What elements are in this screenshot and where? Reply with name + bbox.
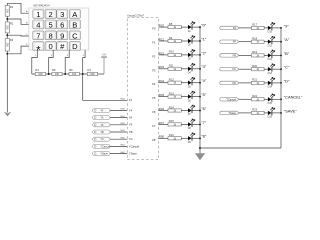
LED D15: [268, 94, 275, 105]
wire tag FB to R19: [239, 54, 251, 56]
svg-text:F3: F3: [152, 68, 156, 72]
svg-text:8: 8: [49, 31, 53, 40]
wire from R1 top to keypad row 1: [7, 3, 29, 13]
wire ladder bus: [32, 73, 104, 75]
svg-text:Y9: Y9: [129, 123, 133, 127]
wire tag TCancel to R22: [239, 98, 251, 100]
svg-text:"SAVE": "SAVE": [284, 108, 297, 113]
wire R2 to node C: [6, 33, 8, 39]
LED D1: [188, 22, 195, 33]
wire tag Y9 to port: [110, 124, 127, 126]
wire D6 to bus: [192, 96, 200, 98]
svg-text:R5: R5: [52, 68, 56, 72]
key 7: [33, 31, 44, 41]
key *: [33, 42, 44, 57]
svg-text:"CANCEL": "CANCEL": [284, 95, 303, 100]
svg-text:1: 1: [36, 10, 40, 19]
resistor R23 1k (horizontal): [251, 108, 264, 115]
svg-text:"1": "1": [201, 36, 207, 41]
LED D11: [268, 36, 275, 47]
resistor R20 1k (horizontal): [251, 64, 264, 71]
junction left bus / tie wire: [199, 147, 201, 149]
wire keypad column pin 4: [83, 50, 85, 74]
resistor R21 1k (horizontal): [251, 78, 264, 85]
sub-circuit module KeypadCCTBrd (dashed boundary): [127, 17, 158, 159]
svg-text:0: 0: [49, 42, 53, 51]
junction on left bus row 4: [199, 82, 201, 84]
svg-text:F2: F2: [152, 54, 156, 58]
LED D8: [188, 119, 195, 130]
wire tag Y4 to port: [110, 109, 127, 111]
junction ladder node 2: [48, 73, 50, 75]
wire port F7 to R15: [159, 123, 169, 125]
key 0: [45, 42, 56, 52]
wire R8 to D1: [181, 26, 188, 28]
net tag FC: [220, 67, 239, 71]
LED D5: [188, 77, 195, 88]
resistor R19 1k (horizontal): [251, 50, 264, 57]
svg-text:R3: R3: [10, 38, 14, 42]
svg-text:C: C: [72, 31, 78, 40]
wire port F0 to R8: [159, 26, 169, 28]
LED D13: [268, 64, 275, 75]
svg-text:YC: YC: [100, 137, 104, 141]
junction on left bus row 8: [199, 137, 201, 139]
svg-text:R1: R1: [10, 5, 14, 9]
svg-text:10K: 10K: [90, 73, 95, 76]
wire tag YC to port: [110, 138, 127, 140]
resistor R3 10K (vertical): [5, 38, 14, 51]
svg-text:R2: R2: [10, 21, 14, 25]
wire D15 to right bus: [272, 98, 281, 100]
key 4: [33, 20, 44, 30]
svg-text:D16: D16: [268, 116, 273, 119]
svg-text:KEYPAD4X4: KEYPAD4X4: [33, 4, 50, 8]
svg-text:7: 7: [36, 31, 40, 40]
junction on left bus row 7: [199, 123, 201, 125]
svg-text:3: 3: [60, 10, 64, 19]
wire tag TSave to R23: [239, 112, 251, 114]
terminal tag Y4: [93, 108, 110, 112]
wire D16 to right bus: [272, 112, 281, 114]
svg-text:+5V: +5V: [102, 53, 107, 56]
LED D2: [188, 36, 195, 47]
svg-text:"3": "3": [201, 64, 207, 69]
wire D3 to bus: [192, 54, 200, 56]
wire keypad column pin 3: [65, 50, 69, 74]
key 1: [33, 10, 44, 20]
junction ladder node 3: [64, 73, 66, 75]
key 3: [57, 10, 68, 20]
svg-text:YCancel: YCancel: [129, 144, 140, 148]
LED D12: [268, 50, 275, 61]
key D: [69, 42, 80, 52]
svg-text:Y9: Y9: [100, 123, 104, 127]
wire tag YA to port: [110, 117, 127, 119]
wire R12 to D5: [181, 82, 188, 84]
wire port F3 to R11: [159, 68, 169, 70]
resistor R11 1k (horizontal): [168, 64, 181, 71]
LED D7: [188, 105, 195, 116]
wire R3 down to ground arrow: [6, 51, 8, 113]
wire D1 to bus: [192, 26, 200, 28]
svg-text:F6: F6: [152, 110, 156, 114]
wire keypad column pin 2: [49, 50, 54, 74]
svg-text:YB: YB: [100, 130, 104, 134]
svg-text:"5": "5": [201, 92, 207, 97]
wire R17 to D10: [264, 27, 268, 29]
wire R14 to D7: [181, 110, 188, 112]
wire tag FA to R18: [239, 41, 251, 43]
resistor R14 1k (horizontal): [168, 105, 181, 112]
net tag F9: [220, 26, 239, 30]
wire chain node to keypad row 2: [7, 19, 29, 24]
key A: [69, 10, 80, 20]
svg-text:10K: 10K: [55, 73, 60, 76]
svg-text:R7: R7: [88, 68, 92, 72]
keypad 4x4 matrix body: [29, 8, 89, 50]
resistor R1 10K (vertical): [5, 5, 14, 16]
net tag FA: [220, 40, 239, 44]
wire left cathode bus: [199, 27, 201, 153]
key 6: [57, 20, 68, 30]
LED D4: [188, 63, 195, 74]
svg-text:YSave: YSave: [129, 152, 137, 156]
resistor R22 1k (horizontal): [251, 94, 264, 101]
junction node row B: [6, 18, 8, 20]
svg-text:YC: YC: [129, 137, 133, 141]
svg-text:YA: YA: [100, 116, 104, 120]
wire port F5 to R13: [159, 96, 169, 98]
svg-text:2: 2: [49, 10, 53, 19]
svg-text:F0: F0: [152, 27, 156, 31]
net tag FD: [220, 81, 239, 85]
resistor R2 10K (vertical): [5, 21, 14, 33]
svg-text:5: 5: [49, 21, 53, 30]
svg-text:"9": "9": [284, 23, 290, 28]
junction on right bus row 3: [280, 68, 282, 70]
key 2: [45, 10, 56, 20]
junction node row D: [6, 53, 8, 55]
junction on right bus row 4: [280, 82, 282, 84]
junction ladder node 4: [82, 73, 84, 75]
junction on right bus row 5: [280, 98, 282, 100]
resistor R12 1k (horizontal): [168, 78, 181, 85]
key C: [69, 31, 80, 41]
net tag FB: [220, 53, 239, 57]
junction node row C: [6, 34, 8, 36]
svg-text:R4: R4: [35, 68, 39, 72]
svg-text:R9: R9: [169, 36, 173, 40]
wire R16 to D9: [181, 137, 188, 139]
svg-text:F5: F5: [152, 96, 156, 100]
svg-text:Y4: Y4: [100, 108, 104, 112]
svg-text:"2": "2": [201, 50, 207, 55]
net tag TSave: [220, 111, 239, 115]
svg-text:"7": "7": [201, 120, 207, 125]
resistor R17 1k (horizontal): [251, 23, 264, 30]
resistor R16 1k (horizontal): [168, 133, 181, 140]
wire port F8 to R16: [159, 137, 169, 139]
LED D9: [188, 133, 195, 144]
resistor R13 1k (horizontal): [168, 91, 181, 98]
wire R10 to D3: [181, 54, 188, 56]
wire D9 to bus: [192, 137, 200, 139]
svg-text:6: 6: [60, 21, 64, 30]
svg-text:FA: FA: [233, 40, 236, 44]
wire port F4 to R12: [159, 82, 169, 84]
ground symbol (arrow): [195, 153, 205, 160]
wire port F6 to R14: [159, 110, 169, 112]
wire D10 to right bus: [272, 27, 281, 29]
svg-text:FD: FD: [233, 81, 237, 85]
svg-text:Y4: Y4: [129, 108, 133, 112]
key 8: [45, 31, 56, 41]
ground arrow (left chain): [4, 112, 12, 117]
junction on right bus row 0: [280, 27, 282, 29]
wire D7 to bus: [192, 110, 200, 112]
svg-text:"D": "D": [284, 78, 290, 83]
svg-text:10K: 10K: [72, 73, 77, 76]
key #: [57, 42, 68, 52]
resistor R4 10K (horizontal): [35, 68, 46, 76]
junction on left bus row 0: [199, 26, 201, 28]
svg-text:R8: R8: [169, 22, 173, 26]
svg-text:TSave: TSave: [229, 111, 237, 115]
wire D8 to bus: [192, 123, 200, 125]
LED D10: [268, 22, 275, 33]
wire D4 to bus: [192, 68, 200, 70]
wire tag F9 to R17: [239, 27, 251, 29]
LED D14: [268, 77, 275, 88]
wire R18 to D11: [264, 41, 268, 43]
resistor R7 10K (horizontal): [87, 68, 97, 76]
junction on left bus row 3: [199, 68, 201, 70]
wire tag FD to R21: [239, 82, 251, 84]
wire R20 to D13: [264, 68, 268, 70]
svg-text:R6: R6: [69, 68, 73, 72]
keypad keys: [33, 10, 81, 57]
svg-text:D14: D14: [268, 86, 273, 89]
LED D3: [188, 49, 195, 60]
junction on left bus row 5: [199, 96, 201, 98]
svg-text:"C": "C": [284, 65, 290, 70]
resistor R8 1k (horizontal): [168, 22, 181, 29]
key 5: [45, 20, 56, 30]
wire keypad column pin 1: [32, 50, 38, 74]
terminal tag YA: [93, 116, 110, 120]
wire R21 to D14: [264, 82, 268, 84]
svg-text:YCancel: YCancel: [100, 144, 110, 148]
wire port F2 to R10: [159, 54, 169, 56]
wire R19 to D12: [264, 54, 268, 56]
wire tag FC to R20: [239, 68, 251, 70]
terminal tag Y9: [93, 123, 110, 127]
resistor R5 10K (horizontal): [52, 68, 62, 76]
power +5V flag: [101, 53, 107, 74]
wire R23 to D16: [264, 112, 268, 114]
wire D13 to right bus: [272, 68, 281, 70]
svg-text:B: B: [72, 21, 77, 30]
svg-text:D13: D13: [268, 72, 273, 75]
wire tag YCancel to port: [110, 145, 127, 147]
svg-text:D10: D10: [268, 31, 273, 34]
svg-text:YA: YA: [129, 116, 133, 120]
svg-text:"A": "A": [284, 37, 290, 42]
junction on left bus row 2: [199, 54, 201, 56]
svg-text:"6": "6": [201, 106, 207, 111]
resistor R10 1k (horizontal): [168, 50, 181, 57]
wire R15 to D8: [181, 123, 188, 125]
resistor R18 1k (horizontal): [251, 37, 264, 44]
junction on left bus row 6: [199, 110, 201, 112]
svg-text:FC: FC: [233, 67, 237, 71]
terminal tag YB: [93, 130, 110, 134]
svg-text:10K: 10K: [38, 73, 43, 76]
svg-text:"0": "0": [201, 23, 207, 28]
wire chain node to keypad row 4: [7, 46, 29, 54]
wire R9 to D2: [181, 40, 188, 42]
wire D11 to right bus: [272, 41, 281, 43]
LED D6: [188, 91, 195, 102]
wire R11 to D4: [181, 68, 188, 70]
wire right cathode bus: [280, 28, 282, 148]
key B: [69, 20, 80, 30]
svg-text:F4: F4: [152, 82, 156, 86]
wire tie right bus to left bus: [200, 147, 281, 149]
svg-text:YB: YB: [129, 130, 133, 134]
terminal tag YCancel: [93, 144, 111, 148]
net tag TCancel: [220, 97, 239, 101]
svg-text:D11: D11: [268, 44, 273, 47]
svg-text:F8: F8: [152, 138, 156, 142]
svg-text:10K: 10K: [6, 25, 9, 30]
wire tag YB to port: [110, 131, 127, 133]
svg-text:X1: X1: [129, 98, 133, 102]
wire R1 to node B: [6, 16, 8, 22]
wire chain node to keypad row 3: [7, 34, 29, 37]
svg-text:D12: D12: [268, 58, 273, 61]
svg-text:4: 4: [36, 21, 40, 30]
resistor R9 1k (horizontal): [168, 36, 181, 43]
svg-text:10K: 10K: [6, 43, 9, 48]
svg-text:"4": "4": [201, 78, 207, 83]
terminal tag YSave: [93, 152, 110, 156]
resistor R6 10K (horizontal): [69, 68, 79, 76]
wire R22 to D15: [264, 98, 268, 100]
wire D12 to right bus: [272, 54, 281, 56]
svg-text:D: D: [72, 42, 78, 51]
wire D2 to bus: [192, 40, 200, 42]
svg-text:FB: FB: [233, 53, 237, 57]
wire D5 to bus: [192, 82, 200, 84]
svg-text:TCancel: TCancel: [226, 97, 236, 101]
svg-text:F1: F1: [152, 41, 156, 45]
svg-text:"B": "B": [284, 51, 290, 56]
junction on right bus row 1: [280, 41, 282, 43]
junction on right bus row 6: [280, 112, 282, 114]
svg-text:KeypadCCTBrd?: KeypadCCTBrd?: [127, 13, 144, 17]
svg-text:"8": "8": [201, 134, 207, 139]
wire R13 to D6: [181, 96, 188, 98]
svg-text:YSave: YSave: [100, 152, 108, 156]
wire D14 to right bus: [272, 82, 281, 84]
svg-text:10K: 10K: [6, 9, 9, 14]
resistor R15 1k (horizontal): [168, 119, 181, 126]
wire port F1 to R9: [159, 40, 169, 42]
wire ladder node4 down to port X1: [83, 74, 128, 100]
svg-text:9: 9: [60, 31, 64, 40]
LED D16: [268, 107, 275, 118]
junction on right bus row 2: [280, 54, 282, 56]
svg-text:D15: D15: [268, 102, 273, 105]
svg-text:F7: F7: [152, 124, 156, 128]
junction on left bus row 1: [199, 40, 201, 42]
key 9: [57, 31, 68, 41]
terminal tag YC: [93, 137, 110, 141]
wire tag YSave to port: [110, 153, 127, 155]
